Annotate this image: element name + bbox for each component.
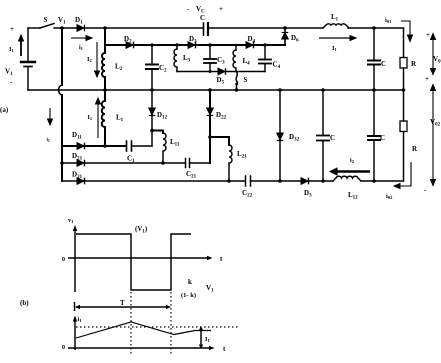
diode D6 (up)	[282, 33, 289, 40]
wire bottom rail of upper circuit	[28, 89, 404, 91]
diode D12 (down)	[149, 108, 156, 115]
svg-text:V1: V1	[5, 68, 13, 78]
bold left arrow above L12	[336, 170, 370, 172]
up arrow beside lower L	[97, 103, 99, 138]
junction node (105,90)	[103, 88, 107, 92]
svg-text:D11: D11	[72, 131, 82, 141]
axis arrowheads plot2	[73, 316, 77, 322]
junction node (285,28)	[283, 26, 287, 30]
svg-text:t: t	[220, 255, 223, 263]
svg-text:L2: L2	[115, 63, 123, 73]
i_o2 pointer	[399, 162, 411, 186]
svg-text:C21: C21	[186, 170, 197, 180]
diode D21	[77, 160, 84, 167]
svg-text:C3: C3	[217, 56, 225, 66]
vertical x152 lower with D12	[151, 90, 153, 146]
inductor L3 (vertical, bumps left)	[176, 45, 178, 49]
bus from switch node down, hop over rail	[61, 28, 63, 85]
junction node (236.7,84)	[235, 83, 238, 86]
svg-text:V1: V1	[206, 284, 214, 294]
dashed vertical 1	[130, 292, 132, 354]
inductor L2 (vertical, bumps left)	[102, 48, 105, 82]
diode D4	[246, 42, 253, 49]
bus71	[177, 71, 265, 73]
wire	[348, 27, 404, 29]
svg-text:I1: I1	[88, 115, 93, 121]
capacitor C21	[185, 159, 187, 168]
svg-text:D32: D32	[289, 133, 300, 143]
T arrowheads	[75, 305, 80, 309]
svg-text:-: -	[10, 78, 13, 86]
svg-text:D3: D3	[304, 189, 312, 199]
junction node (374,28)	[372, 26, 376, 30]
vertical x210 lower with D22	[209, 90, 211, 163]
arrow under L1	[319, 37, 351, 39]
junction node (374,181)	[372, 179, 376, 183]
waveform section	[68, 229, 211, 350]
junction node (152,130.5)	[150, 129, 154, 133]
junction node (265,45)	[263, 43, 267, 47]
inductor L1	[323, 24, 349, 28]
t axis plot2	[68, 347, 210, 349]
svg-text:+: +	[425, 75, 429, 83]
svg-text:L1: L1	[331, 13, 339, 23]
junction node (210,137)	[208, 135, 212, 139]
svg-text:C2: C2	[159, 64, 167, 74]
capacitor C upper output	[373, 28, 375, 60]
i axis plot2	[74, 320, 76, 350]
svg-text:R: R	[412, 145, 418, 153]
i_o1 pointer	[401, 21, 410, 36]
svg-text:i1: i1	[78, 316, 83, 323]
vertical x280 with D31	[279, 90, 281, 181]
Vo1 double arrow	[432, 38, 434, 70]
inductor L21 (bumps right)	[229, 145, 232, 181]
diode D32 (down, x280)	[277, 133, 284, 140]
junction node (152,90)	[150, 88, 154, 92]
current waveform	[76, 322, 211, 338]
svg-text:C22: C22	[242, 189, 253, 199]
down arrow beside L2	[96, 42, 98, 72]
junction node (105,146)	[103, 144, 107, 148]
svg-text:L4: L4	[243, 57, 251, 67]
rail y181	[62, 180, 245, 182]
vertical x374 lower cap	[373, 90, 375, 136]
inductor L12 (horizontal bumps up)	[333, 176, 361, 181]
svg-text:V1: V1	[58, 16, 66, 26]
wire to R1	[403, 28, 405, 58]
junction node (163,163)	[161, 161, 165, 165]
vertical x323 with cap C	[322, 90, 324, 135]
junction node (62,28)	[60, 26, 64, 30]
dashed average line	[76, 326, 240, 328]
t axis plot1	[68, 257, 208, 259]
diode D3	[188, 42, 195, 49]
junction node (152,45)	[150, 43, 154, 47]
junction node (280,181)	[278, 179, 282, 183]
wire top rail right	[208, 27, 323, 29]
diode D11	[77, 143, 84, 150]
svg-text:D6: D6	[291, 34, 299, 44]
rail y163	[62, 162, 185, 164]
svg-text:L12: L12	[348, 191, 358, 201]
svg-text:I1: I1	[9, 46, 15, 53]
svg-text:i02: i02	[386, 193, 393, 200]
junction node (236.5,90)	[235, 88, 239, 92]
svg-text:v1: v1	[68, 217, 74, 224]
svg-text:I2: I2	[87, 56, 93, 63]
svg-text:k: k	[188, 278, 192, 286]
junction node (280,90)	[278, 88, 282, 92]
ripple arrowheads	[199, 326, 203, 331]
junction node (210,45)	[208, 43, 212, 47]
svg-text:0: 0	[62, 257, 65, 263]
svg-text:+: +	[426, 31, 430, 39]
svg-text:i2: i2	[350, 158, 355, 164]
battery V1	[27, 28, 29, 61]
capacitor C1 on rail146	[126, 141, 128, 151]
svg-text:D5: D5	[217, 76, 225, 86]
svg-text:I1: I1	[205, 336, 211, 343]
svg-text:0: 0	[62, 345, 65, 351]
T arrow line	[76, 306, 169, 308]
svg-text:L1: L1	[116, 114, 124, 124]
junction node (177,45)	[175, 43, 179, 47]
inductor L (lower left, bumps left)	[104, 90, 106, 101]
svg-text:D12: D12	[157, 111, 168, 121]
svg-text:V01: V01	[433, 55, 441, 65]
down arrow lower-left	[49, 108, 51, 120]
capacitor C3	[209, 45, 211, 59]
svg-text:-: -	[424, 186, 427, 194]
diode D31 rail3	[77, 178, 84, 185]
svg-text:C: C	[200, 14, 205, 22]
wire top rail left	[28, 27, 40, 29]
svg-text:V02: V02	[430, 118, 441, 128]
svg-text:-: -	[187, 5, 190, 13]
dashed vertical 2	[170, 292, 172, 354]
diode D1	[77, 25, 84, 32]
ripple arrow	[200, 330, 202, 345]
svg-text:L11: L11	[170, 138, 180, 148]
svg-text:D1: D1	[75, 16, 83, 26]
svg-text:C: C	[380, 134, 385, 142]
diode D22 (down)	[207, 108, 214, 115]
svg-text:(V1): (V1)	[135, 225, 148, 235]
diodes and arrows group	[19, 21, 436, 189]
svg-text:S: S	[44, 16, 48, 24]
rail2 (bold)	[105, 44, 285, 46]
resistor R1	[400, 58, 407, 69]
resistor R2	[403, 90, 405, 121]
svg-text:C4: C4	[273, 61, 281, 71]
capacitor C4	[264, 45, 266, 59]
junction node (210,71.5)	[209, 70, 212, 73]
capacitor C22	[245, 176, 247, 186]
diode D2	[126, 42, 133, 49]
junction node (323,181)	[321, 179, 325, 183]
svg-text:t: t	[223, 345, 226, 353]
junction node (210,90)	[208, 88, 212, 92]
switch S	[40, 24, 54, 29]
square wave	[76, 234, 191, 290]
svg-text:D22: D22	[216, 111, 227, 121]
svg-text:L3: L3	[183, 54, 191, 64]
junction node (323,90)	[321, 88, 325, 92]
svg-text:I1: I1	[332, 45, 338, 52]
node after D1 down to rail2	[104, 28, 106, 48]
capacitor C2	[151, 45, 153, 64]
svg-text:(a): (a)	[0, 106, 9, 114]
svg-text:D21: D21	[72, 152, 83, 162]
svg-text:L21: L21	[237, 150, 247, 160]
svg-text:S: S	[244, 76, 248, 84]
switch S lower blade	[236, 72, 237, 83]
junction node (105,28)	[103, 26, 107, 30]
elbow to L11	[152, 131, 163, 134]
junction node (62,163)	[60, 161, 64, 165]
svg-text:i1: i1	[79, 45, 84, 51]
junction node (374,90)	[372, 88, 376, 92]
svg-text:i1: i1	[47, 138, 50, 143]
junction node (229,181)	[227, 179, 231, 183]
svg-text:C: C	[330, 134, 335, 142]
svg-text:R: R	[411, 60, 417, 68]
svg-text:+: +	[10, 25, 14, 33]
diode D5	[218, 68, 225, 75]
diode D3b on rail181	[301, 178, 308, 185]
Vo2 double arrow	[432, 89, 434, 180]
current arrow after D1	[71, 37, 87, 39]
capacitor C (series, top)	[203, 23, 205, 35]
svg-text:C: C	[381, 60, 386, 68]
svg-text:(1- k): (1- k)	[181, 292, 196, 299]
rail y146 bold	[62, 145, 126, 147]
v axis plot1	[74, 229, 76, 292]
wire top rail	[54, 27, 203, 29]
inductor L4	[235, 45, 237, 50]
svg-text:+: +	[219, 5, 223, 13]
svg-text:T: T	[120, 299, 125, 307]
inductor L11 (bumps right)	[163, 133, 166, 163]
D6 vertical connector	[284, 28, 286, 45]
svg-text:D31: D31	[72, 171, 83, 181]
svg-text:i01: i01	[385, 17, 392, 24]
axis arrowheads plot1	[73, 225, 77, 231]
svg-text:(b): (b)	[20, 299, 29, 307]
elbow to L21	[210, 137, 229, 145]
battery current arrow	[20, 40, 22, 56]
junction node (403.5,90)	[402, 88, 406, 92]
